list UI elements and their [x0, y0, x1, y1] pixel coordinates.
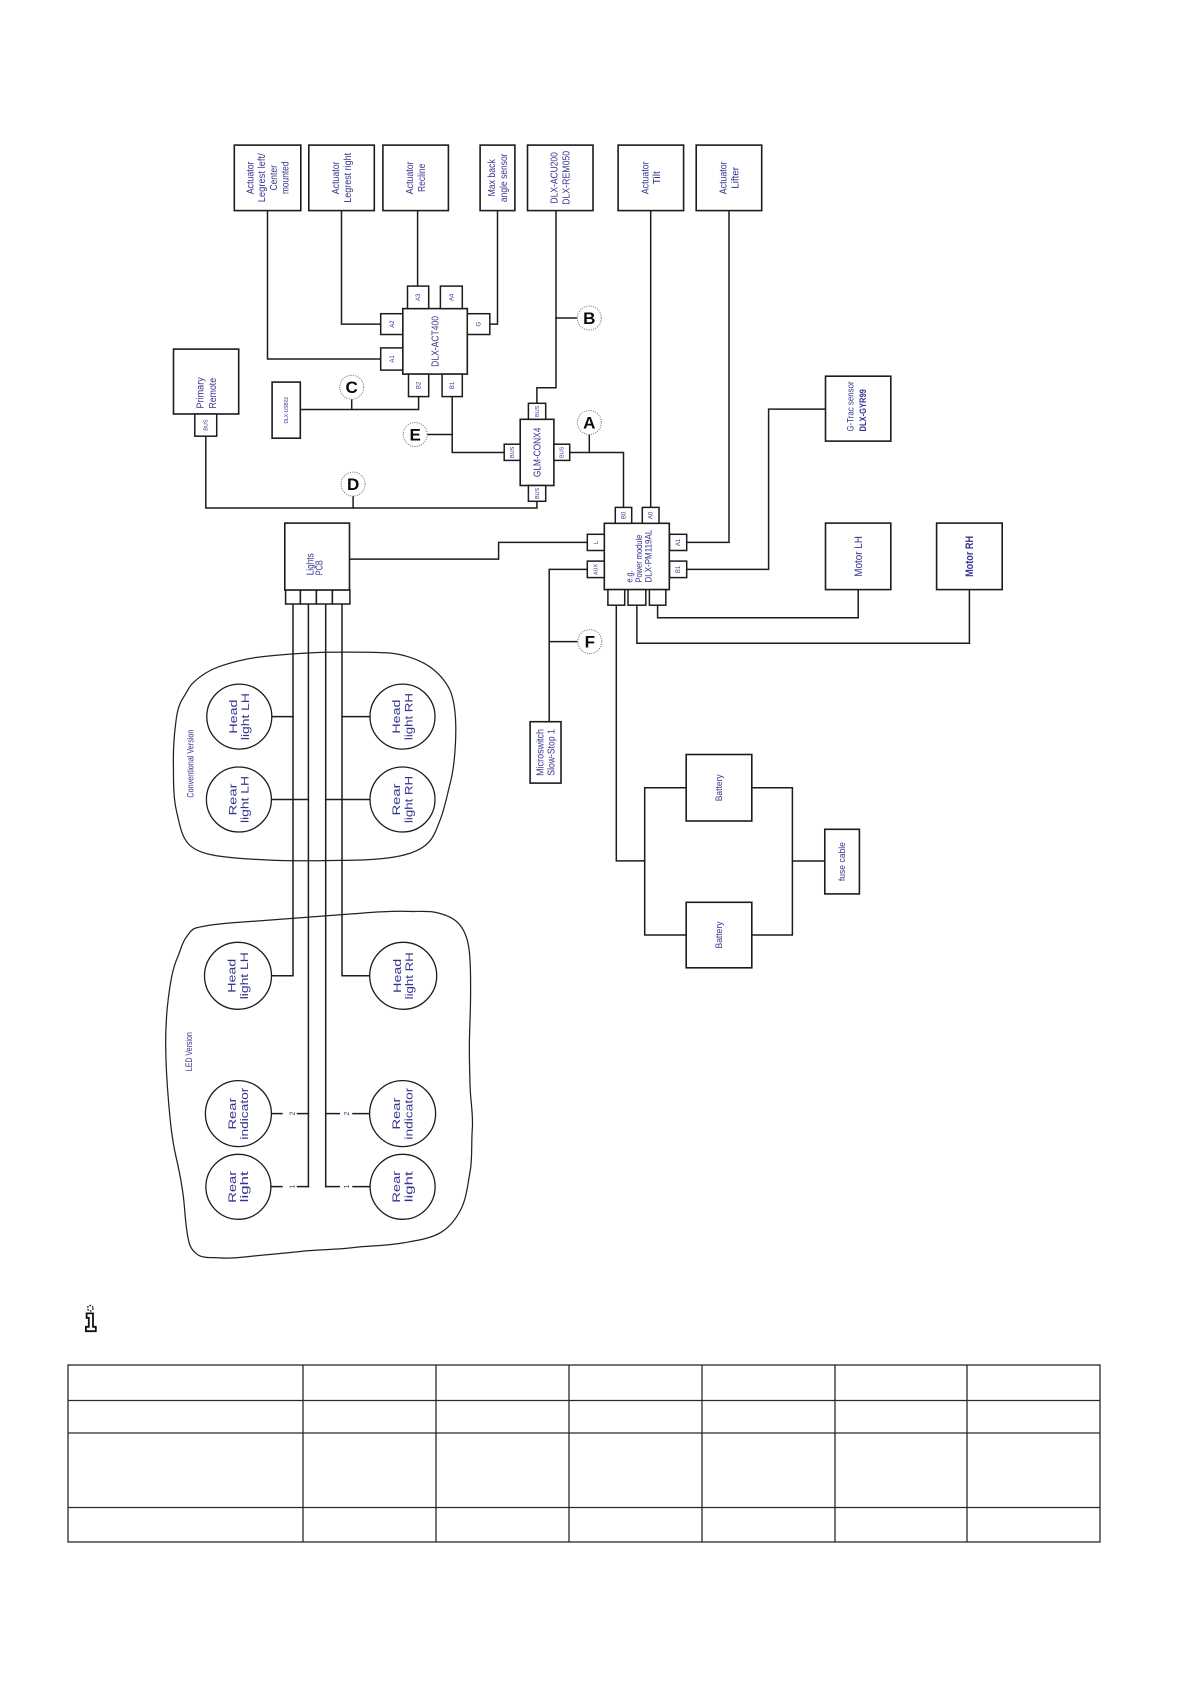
controller: DLX-ACU200 / DLX-REM050 [528, 145, 594, 211]
svg-text:A1: A1 [390, 355, 396, 363]
wire: power module bottom port to Motor RH [637, 590, 970, 644]
svg-text:G: G [477, 321, 483, 326]
wire: Primary Remote BUS to GLM-CONX4 bottom BUS [206, 436, 537, 508]
bus splitter U2: GLM-CONX4 [520, 419, 554, 485]
svg-text:1: 1 [344, 1185, 351, 1189]
svg-text:Rearlight: Rearlight [227, 1170, 251, 1202]
wire: node E stub [427, 434, 452, 436]
svg-text:Headlight RH: Headlight RH [392, 952, 416, 999]
svg-text:2: 2 [344, 1112, 351, 1116]
conventional head light LH [207, 684, 272, 749]
svg-text:BUS: BUS [204, 419, 210, 431]
svg-text:A0: A0 [649, 511, 655, 519]
sensor: G-Trac sensor DLX-GYR99 [826, 376, 891, 441]
svg-text:Motor LH: Motor LH [853, 536, 865, 577]
svg-text:A1: A1 [676, 538, 682, 546]
svg-text:fuse cable: fuse cable [837, 842, 847, 881]
wire 3: Lights PCB port 3 down right side [325, 604, 327, 1187]
port 1 of lights PCB [286, 590, 301, 604]
wire: power module bottom port to battery bus [616, 605, 644, 861]
svg-text:C: C [346, 378, 358, 397]
svg-text:Headlight RH: Headlight RH [391, 693, 415, 740]
svg-text:MicroswitchSlow-Stop 1: MicroswitchSlow-Stop 1 [535, 729, 557, 776]
svg-text:B2: B2 [417, 381, 423, 389]
motor M2: Motor RH [937, 523, 1003, 590]
LED rear light RH [370, 1154, 435, 1219]
svg-text:A2: A2 [390, 320, 396, 328]
actuator module: Recline [383, 145, 449, 211]
wire: Actuator Lifter box to power module port A1 [687, 211, 729, 543]
LED version harness outline [166, 911, 473, 1258]
svg-text:BUS: BUS [560, 446, 566, 458]
motor M1: Motor LH [826, 523, 891, 590]
wire: GLM-CONX4 right BUS to power module port B0 [570, 453, 624, 508]
actuator module: Lifter [696, 145, 762, 211]
port A1 of power module [670, 534, 687, 550]
node C [340, 375, 364, 399]
svg-text:Headlight LH: Headlight LH [227, 952, 251, 999]
battery BT2 [686, 902, 752, 968]
svg-text:2: 2 [289, 1112, 296, 1116]
wire: Actuator Legrest right box to ACT400 port A2 [342, 211, 381, 325]
wire: node B stub [556, 317, 577, 319]
svg-text:DLX-ACU200DLX-REM050: DLX-ACU200DLX-REM050 [550, 150, 573, 204]
wire: conventional rear light RH stub [326, 799, 371, 801]
svg-text:1: 1 [289, 1185, 296, 1189]
svg-text:Max backangle sensor: Max backangle sensor [487, 153, 510, 202]
port B2 of DLX-ACT400 [409, 374, 429, 397]
port B0 of power module [615, 507, 631, 523]
wire: ACT400 port B1 to GLM-CONX4 left BUS [452, 397, 504, 453]
wire 2: Lights PCB port 2 down left side [307, 604, 309, 1187]
svg-text:Rearlight: Rearlight [391, 1170, 415, 1202]
wire: LED rear indicator LH link outer [272, 1113, 283, 1115]
wire 4: Lights PCB port 4 to head lights RH [342, 604, 370, 976]
bottom port 3 of power module [649, 590, 665, 606]
port BUS bottom of GLM-CONX4 [528, 486, 545, 502]
svg-text:GLM-CONX4: GLM-CONX4 [533, 427, 544, 477]
actuator module: Legrest right [309, 145, 375, 211]
svg-text:Conventional Version: Conventional Version [186, 730, 196, 798]
port G of DLX-ACT400 [467, 314, 490, 335]
wire: power module port AUX to Microswitch [549, 569, 587, 721]
node B [577, 306, 601, 330]
port A2 of DLX-ACT400 [381, 314, 403, 335]
port 4 of lights PCB [332, 590, 350, 604]
microswitch: Slow-Stop 1 [530, 722, 561, 783]
port BUS left of GLM-CONX4 [504, 444, 520, 460]
port B1 of DLX-ACT400 [442, 374, 462, 397]
lights PCB [285, 523, 350, 590]
actuator controller U1: DLX-ACT400 [403, 309, 468, 375]
accessory: DLX-USB02 [272, 382, 300, 438]
wire: node D stub [352, 496, 354, 508]
svg-text:B: B [583, 309, 595, 328]
wire: LED rear light LH link outer [272, 1186, 283, 1188]
svg-text:B1: B1 [450, 381, 456, 389]
wire: LED rear indicator LH link inner [298, 1113, 309, 1115]
conventional head light RH [370, 684, 435, 749]
conventional version harness outline [173, 652, 455, 861]
port AUX of power module [587, 561, 604, 578]
wire: node A stub [588, 435, 590, 453]
wire: conventional rear light LH stub [271, 799, 308, 801]
svg-text:Battery: Battery [714, 921, 725, 948]
sensor: Max back angle sensor [480, 145, 515, 211]
node D [341, 472, 365, 496]
node A [577, 411, 601, 435]
wire: fuse cable stub [792, 860, 824, 862]
svg-text:A3: A3 [416, 293, 422, 301]
wire: node C stub [351, 399, 353, 409]
port BUS top of GLM-CONX4 [528, 403, 545, 419]
port A0 of power module [642, 507, 659, 523]
port A3 of DLX-ACT400 [408, 286, 429, 309]
wire: LED rear indicator RH link inner [326, 1113, 340, 1115]
wire: Max back angle sensor box to ACT400 port G [490, 211, 497, 325]
battery BT1 [686, 755, 752, 822]
port BUS right of GLM-CONX4 [554, 444, 570, 460]
wire: LED rear indicator RH link outer [353, 1113, 370, 1115]
wire: LED rear light LH link inner [298, 1186, 309, 1188]
table [68, 1365, 1100, 1542]
remote module: Primary Remote [174, 349, 239, 414]
svg-text:F: F [585, 632, 595, 651]
svg-text:DLX-USB02: DLX-USB02 [284, 397, 290, 424]
port BUS of Primary Remote [195, 414, 217, 436]
actuator module: Legrest left / Center mounted [234, 145, 300, 211]
svg-text:Motor RH: Motor RH [964, 536, 976, 577]
bottom port 1 of power module [608, 590, 625, 606]
conventional rear light RH [370, 767, 435, 832]
svg-text:AUX: AUX [594, 563, 600, 574]
wire: power module port B1 to G-Trac sensor [687, 409, 826, 569]
port 2 of lights PCB [300, 590, 316, 604]
node E [403, 423, 427, 447]
svg-text:D: D [347, 475, 359, 494]
wire: battery right bus [752, 788, 793, 935]
power module U3: DLX-PM119AL [604, 523, 669, 589]
svg-text:BUS: BUS [510, 446, 516, 458]
svg-text:Headlight LH: Headlight LH [228, 693, 252, 740]
svg-text:B1: B1 [676, 565, 682, 573]
svg-text:LED Version: LED Version [184, 1032, 194, 1071]
svg-text:ActuatorRecline: ActuatorRecline [405, 161, 428, 194]
LED head light RH [370, 942, 437, 1009]
svg-text:DLX-ACT400: DLX-ACT400 [431, 316, 442, 367]
wire: LED rear light RH link outer [353, 1186, 370, 1188]
svg-text:A: A [583, 413, 595, 432]
LED rear indicator RH [370, 1081, 436, 1147]
wire: conventional head light LH stub [272, 716, 293, 718]
svg-text:E: E [410, 425, 421, 444]
wire: LED rear light RH link inner [326, 1186, 340, 1188]
LED rear indicator LH [205, 1081, 271, 1147]
conventional rear light LH [206, 767, 271, 832]
node F [578, 630, 602, 654]
svg-text:PrimaryRemote: PrimaryRemote [194, 377, 219, 409]
port L of power module [587, 534, 604, 550]
svg-text:BUS: BUS [535, 405, 541, 417]
LED rear light LH [206, 1154, 271, 1219]
fuse cable F1 [825, 829, 860, 894]
actuator module: Tilt [618, 145, 684, 211]
bottom port 2 of power module [628, 590, 646, 606]
svg-text:Battery: Battery [714, 774, 725, 801]
LED head light LH [205, 942, 272, 1009]
wire: Actuator Legrest left box to ACT400 port A1 [268, 211, 381, 359]
info icon [86, 1306, 96, 1332]
wire: power module port L to Lights PCB [350, 542, 588, 559]
wire: Actuator Tilt box to power module port A0 [650, 211, 652, 508]
svg-text:B0: B0 [622, 511, 628, 519]
wire 1: Lights PCB port 1 to head lights LH [272, 604, 293, 976]
svg-text:A4: A4 [449, 293, 455, 301]
wire: battery left bus [645, 788, 687, 935]
wire: DLX-ACU200 box to GLM-CONX4 top BUS [537, 211, 556, 404]
wire: node F stub [549, 641, 578, 643]
svg-text:BUS: BUS [535, 487, 541, 499]
port B1 of power module [670, 561, 687, 578]
wire: Actuator Recline box to ACT400 port A3 [417, 211, 419, 287]
port A4 of DLX-ACT400 [440, 286, 462, 309]
port A1 of DLX-ACT400 [381, 348, 403, 370]
wire: ACT400 port B2 to DLX-USB02 [300, 397, 418, 410]
port 3 of lights PCB [316, 590, 332, 604]
wire: conventional head light RH stub [342, 716, 371, 718]
wire: power module bottom port to Motor LH [658, 590, 859, 618]
